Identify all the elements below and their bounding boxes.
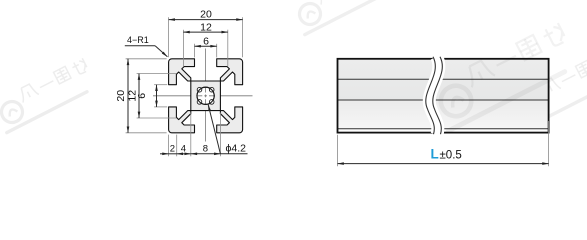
ext lines 12 left <box>137 73 177 75</box>
inner lines <box>338 78 549 80</box>
watermark stamp middle (over bar) <box>427 22 579 131</box>
bar body <box>338 59 549 100</box>
ext lines 12 top <box>182 30 184 66</box>
bar outline <box>338 59 549 133</box>
watermark stamp top <box>290 0 395 35</box>
svg-text:±0.5: ±0.5 <box>440 149 462 161</box>
svg-text:20: 20 <box>115 90 127 102</box>
dim line L <box>338 163 549 165</box>
svg-text:4−R1: 4−R1 <box>127 35 149 45</box>
dim line 12 left <box>138 74 140 118</box>
dim line 6 left <box>156 85 158 107</box>
leader phi 4.2 <box>208 105 220 154</box>
dim line 12 top <box>183 31 227 33</box>
ext lines 20 left <box>126 58 167 60</box>
break curve left <box>426 57 436 134</box>
centerline vertical <box>205 49 207 142</box>
ext lines L <box>338 121 549 166</box>
break curve right <box>433 57 443 134</box>
watermark stamp right <box>514 51 587 126</box>
dim line 6 top <box>195 45 217 47</box>
center hole main circle <box>197 87 214 104</box>
svg-text:ϕ4.2: ϕ4.2 <box>226 142 247 154</box>
break band white <box>429 57 439 135</box>
watermark stamp left <box>0 57 97 132</box>
dim line bottom <box>160 153 169 155</box>
ext lines 20 top <box>168 17 170 57</box>
center hole serration bumps <box>197 87 214 104</box>
ext lines 6 top <box>194 44 196 58</box>
dim line 20 top <box>169 19 243 21</box>
svg-text:12: 12 <box>200 21 212 33</box>
ext lines 6 left <box>154 84 167 86</box>
svg-text:4: 4 <box>181 143 186 154</box>
centerline horizontal <box>153 95 253 97</box>
extrusion profile body <box>169 59 243 133</box>
dim line 20 left <box>127 59 129 133</box>
svg-text:8: 8 <box>203 143 208 154</box>
svg-text:L: L <box>431 146 439 161</box>
svg-text:6: 6 <box>203 35 209 47</box>
svg-text:2: 2 <box>170 143 175 154</box>
svg-text:20: 20 <box>200 9 212 21</box>
svg-text:6: 6 <box>136 93 148 99</box>
